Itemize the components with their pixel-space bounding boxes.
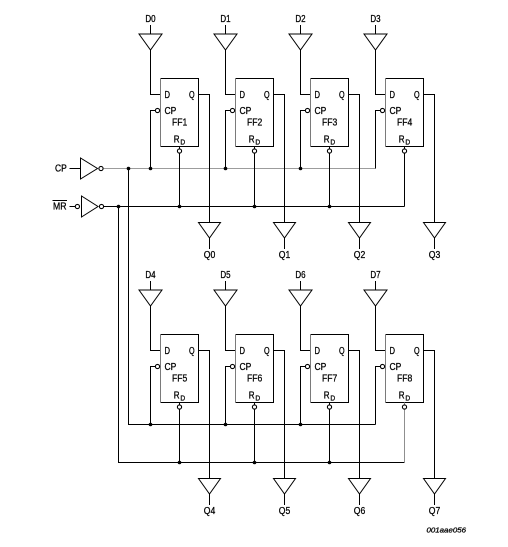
wire: CP feed to bottom row + CP bus (bottom row) [129, 169, 376, 425]
svg-text:D: D [165, 346, 171, 357]
buffer: Q5 output [274, 479, 296, 495]
buffer: MR input (reset driver) [82, 196, 99, 217]
svg-text:Q5: Q5 [279, 506, 291, 517]
junction: CP bus / FF5 CP stub [149, 423, 153, 427]
junction: MR bus / FF3 RD [328, 205, 332, 209]
buffer: Q0 output [199, 223, 221, 239]
wire: CP bus to FF2 CP pin [226, 111, 231, 169]
svg-text:D: D [180, 138, 185, 147]
wire: FF7 Q to Q6 buffer [349, 351, 360, 479]
svg-text:FF1: FF1 [172, 118, 188, 129]
svg-text:D7: D7 [370, 270, 381, 281]
wire: CP bus to FF1 CP pin [151, 111, 156, 169]
junction: MR bus / FF5 RD [178, 461, 182, 465]
svg-text:CP: CP [390, 106, 402, 117]
flip-flop FF8 box [386, 335, 424, 403]
bubble: FF4 RD pin (active-low reset) [402, 149, 406, 153]
wire: D0 buffer to FF1 pin D [151, 50, 161, 95]
bubble: MR buffer input [75, 204, 79, 208]
svg-text:D: D [165, 90, 171, 101]
wire: FF6 RD pin to MR bus [254, 403, 256, 463]
wire: FF2 Q to Q1 buffer [274, 95, 285, 223]
svg-text:D5: D5 [220, 270, 231, 281]
svg-text:Q: Q [339, 90, 345, 101]
junction: MR bus / FF1 RD [178, 205, 182, 209]
buffer: D1 input [214, 34, 237, 50]
wire: CP bus to FF8 CP pin [376, 367, 381, 425]
junction: MR bus / FF6 RD [253, 461, 257, 465]
junction: MR bus / FF7 RD [328, 461, 332, 465]
wire: FF4 Q to Q3 buffer [424, 95, 435, 223]
svg-text:Q6: Q6 [354, 506, 366, 517]
svg-text:D: D [315, 346, 321, 357]
wire: FF2 RD pin to MR bus [254, 147, 256, 207]
svg-text:Q: Q [189, 346, 195, 357]
wire: D5 buffer to FF6 pin D [226, 306, 236, 351]
svg-text:Q0: Q0 [204, 250, 216, 261]
svg-text:D: D [330, 394, 335, 403]
svg-text:D1: D1 [220, 14, 231, 25]
wire: FF8 Q to Q7 buffer [424, 351, 435, 479]
svg-text:D: D [255, 138, 260, 147]
bubble: FF5 RD pin (active-low reset) [177, 405, 181, 409]
wire: Q6 buffer output stub [359, 494, 361, 505]
wire: Q4 buffer output stub [209, 494, 211, 505]
buffer: D2 input [289, 34, 312, 50]
wire: Q7 buffer output stub [434, 494, 436, 505]
wire: D3 buffer to FF4 pin D [376, 50, 386, 95]
svg-text:FF4: FF4 [397, 118, 413, 129]
wire: FF5 RD pin to MR bus [179, 403, 181, 463]
buffer: Q2 output [349, 223, 371, 239]
wire: D1 buffer to FF2 pin D [226, 50, 236, 95]
wire: FF4 RD pin to MR bus [404, 147, 406, 207]
wire: FF5 Q to Q4 buffer [199, 351, 210, 479]
junction: CP bus / FF7 CP stub [299, 423, 303, 427]
flip-flop FF2 box [236, 79, 274, 147]
svg-text:R: R [324, 135, 330, 146]
wire: D6 buffer to FF7 pin D [301, 306, 311, 351]
svg-text:CP: CP [165, 362, 177, 373]
wire: FF3 Q to Q2 buffer [349, 95, 360, 223]
junction: CP bus / FF3 CP stub [299, 167, 303, 171]
svg-text:R: R [249, 135, 255, 146]
svg-text:D: D [390, 90, 396, 101]
bubble: FF2 CP pin (active-low clock) [230, 108, 234, 112]
wire: MR bus (top row) [104, 206, 405, 208]
bubble: FF7 RD pin (active-low reset) [327, 405, 331, 409]
flip-flop FF3 box [311, 79, 349, 147]
flip-flop FF7 box [311, 335, 349, 403]
svg-text:Q4: Q4 [204, 506, 216, 517]
wire: D1 label to input buffer [225, 25, 227, 34]
svg-text:001aae056: 001aae056 [427, 526, 467, 535]
svg-text:FF7: FF7 [322, 374, 338, 385]
bubble: FF6 RD pin (active-low reset) [252, 405, 256, 409]
junction: MR bus / FF2 RD [253, 205, 257, 209]
bubble: FF4 CP pin (active-low clock) [380, 108, 384, 112]
svg-text:R: R [324, 391, 330, 402]
svg-text:Q1: Q1 [279, 250, 291, 261]
svg-text:D: D [240, 346, 246, 357]
buffer: Q4 output [199, 479, 221, 495]
svg-text:D0: D0 [145, 14, 156, 25]
svg-text:FF2: FF2 [247, 118, 263, 129]
svg-text:Q: Q [339, 346, 345, 357]
svg-text:Q: Q [189, 90, 195, 101]
junction: MR bus / bottom row feed [117, 205, 121, 209]
wire: D2 label to input buffer [300, 25, 302, 34]
wire: CP bus to FF5 CP pin [151, 367, 156, 425]
wire: D6 label to input buffer [300, 281, 302, 290]
svg-text:D4: D4 [145, 270, 156, 281]
wire: CP bus to FF6 CP pin [226, 367, 231, 425]
buffer: Q7 output [424, 479, 446, 495]
wire: FF1 Q to Q0 buffer [199, 95, 210, 223]
buffer: D3 input [364, 34, 387, 50]
buffer: D4 input [139, 290, 162, 306]
bubble: FF6 CP pin (active-low clock) [230, 364, 234, 368]
bubble: FF8 CP pin (active-low clock) [380, 364, 384, 368]
buffer: D6 input [289, 290, 312, 306]
svg-text:R: R [249, 391, 255, 402]
junction: CP bus / FF6 CP stub [224, 423, 228, 427]
wire: Q0 buffer output stub [209, 238, 211, 249]
wire: D3 label to input buffer [375, 25, 377, 34]
bubble: FF3 RD pin (active-low reset) [327, 149, 331, 153]
svg-text:D: D [330, 138, 335, 147]
wire: MR feed to bottom row + MR bus (bottom row) [119, 207, 405, 463]
wire: FF6 Q to Q5 buffer [274, 351, 285, 479]
svg-text:D: D [390, 346, 396, 357]
wire: Q3 buffer output stub [434, 238, 436, 249]
svg-text:FF8: FF8 [397, 374, 413, 385]
flip-flop FF6 box [236, 335, 274, 403]
svg-text:Q2: Q2 [354, 250, 366, 261]
wire: D0 label to input buffer [150, 25, 152, 34]
wire: Q1 buffer output stub [284, 238, 286, 249]
svg-text:R: R [174, 135, 180, 146]
buffer: Q6 output [349, 479, 371, 495]
svg-text:D: D [315, 90, 321, 101]
wire: CP bus (top row, gray) [104, 168, 376, 170]
bubble: FF3 CP pin (active-low clock) [305, 108, 309, 112]
wire: CP bus to FF4 CP pin [376, 111, 381, 169]
wire: D7 buffer to FF8 pin D [376, 306, 386, 351]
wire: FF1 RD pin to MR bus [179, 147, 181, 207]
bubble: FF7 CP pin (active-low clock) [305, 364, 309, 368]
svg-text:Q3: Q3 [429, 250, 441, 261]
junction: CP bus / FF2 CP stub [224, 167, 228, 171]
svg-text:Q: Q [414, 90, 420, 101]
svg-text:D3: D3 [370, 14, 381, 25]
bubble: FF2 RD pin (active-low reset) [252, 149, 256, 153]
svg-text:CP: CP [390, 362, 402, 373]
svg-text:D: D [180, 394, 185, 403]
svg-text:D: D [405, 394, 410, 403]
bubble: FF1 RD pin (active-low reset) [177, 149, 181, 153]
svg-text:R: R [399, 135, 405, 146]
svg-text:CP: CP [240, 106, 252, 117]
wire: Q5 buffer output stub [284, 494, 286, 505]
wire: Q2 buffer output stub [359, 238, 361, 249]
junction: CP bus / bottom row feed [127, 167, 131, 171]
buffer: Q3 output [424, 223, 446, 239]
wire: CP bus to FF7 CP pin [301, 367, 306, 425]
svg-text:D6: D6 [295, 270, 306, 281]
svg-text:R: R [174, 391, 180, 402]
flip-flop FF5 box [161, 335, 199, 403]
svg-text:FF5: FF5 [172, 374, 188, 385]
svg-text:FF3: FF3 [322, 118, 338, 129]
junction: CP bus / FF1 CP stub [149, 167, 153, 171]
svg-text:D: D [405, 138, 410, 147]
svg-text:D: D [255, 394, 260, 403]
wire: FF7 RD pin to MR bus [329, 403, 331, 463]
bubble: MR buffer output [99, 204, 103, 208]
bubble: FF8 RD pin (active-low reset) [402, 405, 406, 409]
svg-text:Q7: Q7 [429, 506, 441, 517]
wire: D4 label to input buffer [150, 281, 152, 290]
wire: D2 buffer to FF3 pin D [301, 50, 311, 95]
svg-text:CP: CP [55, 164, 67, 175]
buffer: CP input (clock driver) [81, 158, 98, 179]
wire: CP label to clock buffer [70, 168, 81, 170]
buffer: D7 input [364, 290, 387, 306]
wire: MR label to reset buffer [70, 206, 76, 208]
flip-flop FF4 box [386, 79, 424, 147]
wire: FF3 RD pin to MR bus [329, 147, 331, 207]
bubble: FF1 CP pin (active-low clock) [155, 108, 159, 112]
buffer: D0 input [139, 34, 162, 50]
svg-text:Q: Q [414, 346, 420, 357]
svg-text:MR: MR [53, 202, 67, 213]
wire: D5 label to input buffer [225, 281, 227, 290]
wire: FF8 RD pin to MR bus [404, 403, 406, 463]
svg-text:Q: Q [264, 346, 270, 357]
buffer: D5 input [214, 290, 237, 306]
svg-text:D: D [240, 90, 246, 101]
wire: D4 buffer to FF5 pin D [151, 306, 161, 351]
wire: CP bus to FF3 CP pin [301, 111, 306, 169]
svg-text:FF6: FF6 [247, 374, 263, 385]
svg-text:CP: CP [240, 362, 252, 373]
buffer: Q1 output [274, 223, 296, 239]
bubble: FF5 CP pin (active-low clock) [155, 364, 159, 368]
bubble: CP buffer output [99, 166, 103, 170]
svg-text:CP: CP [315, 362, 327, 373]
svg-text:D2: D2 [295, 14, 306, 25]
flip-flop FF1 box [161, 79, 199, 147]
svg-text:CP: CP [165, 106, 177, 117]
wire: D7 label to input buffer [375, 281, 377, 290]
svg-text:Q: Q [264, 90, 270, 101]
svg-text:CP: CP [315, 106, 327, 117]
svg-text:R: R [399, 391, 405, 402]
